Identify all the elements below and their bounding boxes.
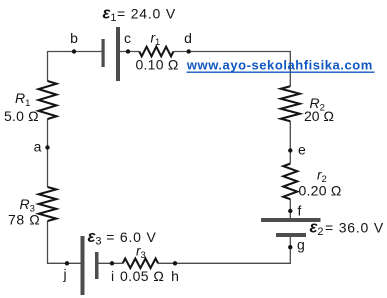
resistor R2 zigzag	[281, 86, 300, 121]
svg-text:b: b	[70, 30, 78, 46]
node i junction dot	[110, 261, 114, 265]
svg-text:j: j	[62, 266, 66, 282]
wire: r2 bottom through node f to battery E2 long plate	[289, 199, 291, 218]
internal resistance r2 zigzag	[283, 164, 297, 200]
wire: battery E3 tall plate left through node j, bottom-left corner, up to R3 bottom	[48, 221, 81, 263]
svg-text:www.ayo-sekolahfisika.com: www.ayo-sekolahfisika.com	[186, 57, 373, 72]
resistor R3 zigzag	[39, 187, 57, 221]
wire: R2 bottom through node e to r2 top	[289, 121, 291, 163]
wire: battery E1 long plate to node c and r1 left end	[120, 51, 139, 53]
svg-text:h: h	[171, 268, 179, 284]
node b junction dot	[72, 49, 76, 53]
svg-text:e: e	[298, 142, 306, 158]
svg-text:0.10 Ω: 0.10 Ω	[136, 57, 179, 73]
battery E2 long plate (positive)	[261, 218, 321, 222]
node h junction dot	[173, 261, 177, 265]
battery E2 short plate (negative)	[276, 233, 306, 237]
node g junction dot	[288, 245, 292, 249]
wire: R3 top through node a to R1 bottom	[47, 119, 49, 187]
svg-text:78 Ω: 78 Ω	[8, 212, 40, 228]
svg-text:c: c	[124, 30, 131, 46]
svg-text:f: f	[298, 203, 302, 219]
svg-text:5.0 Ω: 5.0 Ω	[4, 108, 39, 124]
battery E3 short plate (negative)	[95, 252, 99, 279]
wire: battery E2 short plate down through node g, bottom-right corner, left through node h to r3 right end	[158, 237, 290, 263]
svg-text:20 Ω: 20 Ω	[304, 108, 334, 124]
svg-text:g: g	[297, 237, 305, 253]
watermark link underline	[187, 71, 375, 73]
node e junction dot	[288, 148, 292, 152]
svg-text:i: i	[111, 268, 114, 284]
battery E3 long plate (positive)	[81, 236, 85, 295]
wire: r1 right end through node d, top-right corner, down to R2 top	[173, 52, 290, 87]
battery E1 long plate (positive)	[116, 27, 120, 81]
svg-text:d: d	[184, 30, 192, 46]
node j junction dot	[65, 261, 69, 265]
node d junction dot	[187, 49, 191, 53]
node f junction dot	[288, 209, 292, 213]
svg-text:a: a	[34, 139, 42, 155]
svg-text:0.05 Ω: 0.05 Ω	[120, 268, 164, 284]
node c junction dot	[126, 49, 130, 53]
battery E1 short plate (negative)	[102, 39, 105, 67]
svg-text:0.20 Ω: 0.20 Ω	[299, 183, 342, 199]
wire top-left: R1 top up to corner, right through node b to battery E1	[48, 52, 102, 82]
internal resistance r3 zigzag	[123, 259, 158, 269]
resistor R1 zigzag	[39, 81, 57, 119]
internal resistance r1 zigzag	[139, 47, 173, 57]
node a junction dot	[45, 145, 49, 149]
wire: r3 left end through node i to battery E3 short plate	[99, 262, 123, 264]
